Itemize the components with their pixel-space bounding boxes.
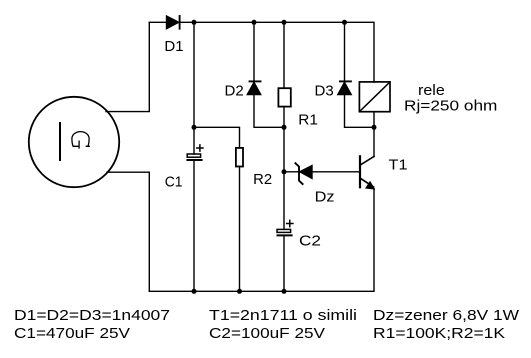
svg-text:Rj=250 ohm: Rj=250 ohm <box>404 99 497 115</box>
svg-text:Dz=zener 6,8V 1W: Dz=zener 6,8V 1W <box>373 308 519 324</box>
svg-text:C1=470uF 25V: C1=470uF 25V <box>14 326 130 342</box>
node bottom rail / C2 <box>282 289 287 294</box>
zener diode Dz <box>284 163 312 184</box>
wire bottom rail <box>149 189 374 291</box>
node top rail / C1 branch <box>192 20 197 25</box>
svg-text:D2: D2 <box>225 83 244 99</box>
wire zener to base <box>312 171 359 173</box>
node zener junction <box>282 169 287 174</box>
wire D2 to node <box>254 95 284 128</box>
wire rail to D3 <box>344 22 346 82</box>
wire R2 to bottom rail <box>239 167 241 292</box>
svg-text:D3: D3 <box>315 83 334 99</box>
svg-text:C1: C1 <box>165 174 183 190</box>
wire top rail <box>149 22 374 82</box>
node R1/D2 junction <box>282 125 287 130</box>
capacitor C2 <box>277 220 293 235</box>
svg-text:C2=100uF 25V: C2=100uF 25V <box>209 326 325 342</box>
svg-text:D1: D1 <box>164 39 183 55</box>
wire relay to collector node <box>373 112 375 128</box>
diode D3 <box>338 81 351 94</box>
wire C2 to bottom rail <box>283 235 285 291</box>
svg-text:R1=100K;R2=1K: R1=100K;R2=1K <box>373 326 505 342</box>
node C1 top junction <box>192 125 197 130</box>
wire rail to D2 <box>253 22 255 82</box>
wire rail to R1 <box>283 22 285 88</box>
diode D2 <box>247 81 260 94</box>
wire node to R2 <box>194 127 240 148</box>
svg-text:T1=2n1711 o simili: T1=2n1711 o simili <box>209 308 357 324</box>
transistor T1 <box>360 127 374 189</box>
resistor R1 <box>278 88 290 106</box>
svg-text:Dz: Dz <box>315 190 335 206</box>
svg-text:C2: C2 <box>299 234 321 250</box>
generator G1 <box>29 97 119 187</box>
generator coil symbol <box>72 132 89 148</box>
node bottom rail / R2 <box>237 289 242 294</box>
node collector junction <box>372 125 377 130</box>
svg-text:rele: rele <box>418 83 445 99</box>
wire generator top lead <box>106 22 149 111</box>
wire C1 to bottom rail <box>193 160 195 291</box>
wire C1 branch from rail <box>193 22 195 154</box>
node top rail / D2 branch <box>252 20 257 25</box>
diode D1 <box>167 16 180 29</box>
node top rail / D3 branch <box>342 20 347 25</box>
resistor R2 <box>236 148 243 167</box>
node top rail / R1 branch <box>282 20 287 25</box>
capacitor C1 <box>187 145 203 160</box>
wire R1 down through nodes <box>283 107 285 230</box>
wire generator bottom lead <box>107 172 149 291</box>
wire D3 to collector node <box>345 95 375 128</box>
generator plate bar <box>59 123 61 160</box>
relay K1 <box>359 82 390 112</box>
svg-text:R1: R1 <box>298 113 318 129</box>
svg-text:T1: T1 <box>389 158 408 174</box>
svg-text:D1=D2=D3=1n4007: D1=D2=D3=1n4007 <box>14 308 170 324</box>
svg-text:R2: R2 <box>253 172 272 188</box>
node bottom rail / C1 <box>192 289 197 294</box>
